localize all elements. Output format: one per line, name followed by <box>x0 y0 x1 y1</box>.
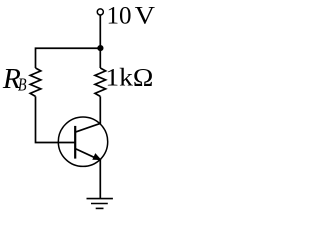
svg-text:B: B <box>18 74 27 94</box>
svg-text:V: V <box>135 1 155 29</box>
svg-text:10: 10 <box>107 2 132 29</box>
svg-text:1kΩ: 1kΩ <box>105 65 153 92</box>
